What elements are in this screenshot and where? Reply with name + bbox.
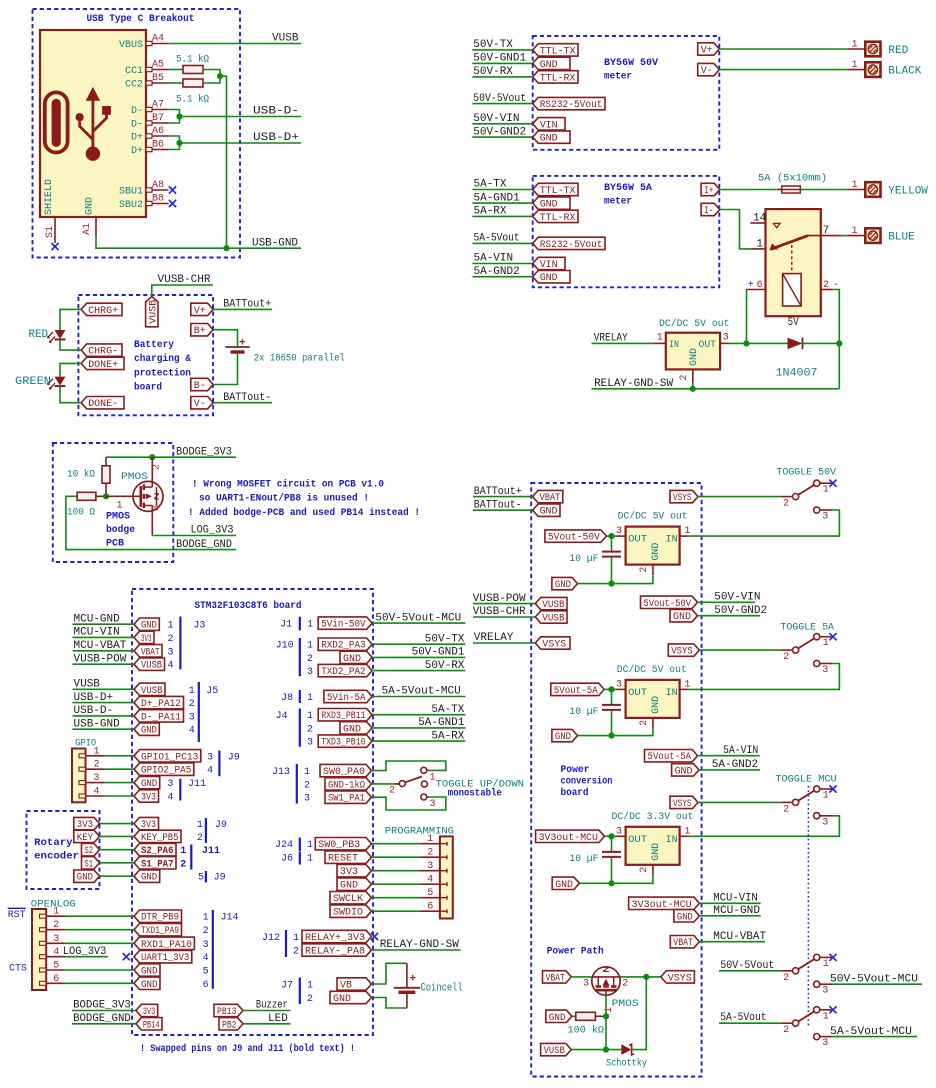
wire RELAY-GND-SW: [592, 388, 840, 390]
svg-text:LED: LED: [268, 1013, 288, 1025]
wire relay pin2 down to gnd rail: [832, 290, 839, 389]
svg-text:RED: RED: [888, 45, 908, 57]
svg-text:TXD1_PA9: TXD1_PA9: [141, 926, 179, 937]
sheet pin VIN / label 50V-VIN: [472, 123, 532, 125]
sheet pin GND out2 / label 5A-GND2: [672, 764, 699, 776]
label VUSB-POW / sheet pin VUSB: [73, 663, 135, 665]
sheet pin VUSB top: [146, 296, 158, 326]
pin A6 D+: [146, 134, 169, 138]
svg-text:50V-5Vout: 50V-5Vout: [720, 960, 774, 972]
svg-text:VRELAY: VRELAY: [594, 332, 628, 344]
sheet pin CHRG-: [81, 344, 122, 356]
svg-text:GND: GND: [555, 732, 571, 743]
svg-text:VBAT: VBAT: [673, 938, 693, 949]
svg-text:3: 3: [152, 505, 163, 511]
svg-text:5Vout-50V: 5Vout-50V: [644, 599, 692, 610]
svg-text:PB13: PB13: [217, 1007, 237, 1018]
svg-text:S1: S1: [45, 226, 56, 238]
svg-text:50V-VIN: 50V-VIN: [714, 592, 760, 604]
svg-text:S1_PA7: S1_PA7: [141, 859, 174, 870]
svg-text:6: 6: [203, 980, 209, 991]
wire Q2 gate down: [605, 990, 607, 997]
svg-text:GPIO2_PA5: GPIO2_PA5: [141, 766, 191, 777]
sheet pin RELAY-_PA8 / label RELAY-GND-SW: [302, 944, 372, 956]
svg-text:4: 4: [427, 875, 433, 886]
sheet pin GND / label 5A-GND1: [472, 202, 532, 204]
svg-text:VSYS: VSYS: [668, 973, 692, 984]
junction cap1 top: [608, 533, 614, 539]
wire gnd rail U4: [578, 728, 653, 735]
svg-text:5A-GND1: 5A-GND1: [474, 192, 521, 204]
svg-text:CTS: CTS: [9, 964, 27, 975]
svg-text:GND: GND: [651, 696, 662, 714]
pin 3 U2: [720, 342, 729, 344]
sheet pin 3V3out-MCU out / label MCU-VIN: [629, 897, 700, 909]
sheet pin VBAT powerpath: [543, 971, 572, 983]
svg-text:5.1 kΩ: 5.1 kΩ: [176, 54, 209, 66]
svg-text:SWDIO: SWDIO: [333, 908, 363, 919]
svg-text:B+: B+: [194, 326, 206, 337]
svg-text:2: 2: [203, 926, 209, 937]
junction BODGE_3V3 to PMOS source: [149, 454, 155, 460]
svg-text:B5: B5: [152, 73, 164, 84]
svg-text:BATTout+: BATTout+: [223, 299, 271, 311]
svg-text:GND: GND: [651, 543, 662, 561]
svg-text:USB-D+: USB-D+: [253, 132, 299, 144]
svg-text:PMOS: PMOS: [612, 999, 639, 1010]
label VUSB-POW / sheet pin VUSB: [473, 603, 535, 605]
pin B5 CC2: [146, 81, 169, 85]
svg-text:USB-D-: USB-D-: [253, 106, 299, 118]
svg-text:PMOS: PMOS: [121, 472, 148, 483]
svg-text:1: 1: [189, 686, 195, 697]
sheet box BY56W 5A meter: [533, 176, 720, 287]
svg-text:3: 3: [822, 665, 828, 676]
svg-text:Battery: Battery: [134, 340, 174, 351]
svg-text:TXD3_PB10: TXD3_PB10: [321, 738, 365, 749]
svg-text:1: 1: [197, 820, 203, 831]
svg-text:5A-GND2: 5A-GND2: [712, 759, 758, 771]
svg-text:D-: D-: [131, 106, 143, 117]
svg-text:2: 2: [307, 724, 313, 735]
svg-text:SW0_PB3: SW0_PB3: [318, 840, 360, 851]
svg-text:1: 1: [852, 40, 858, 51]
sheet pin TTL-TX / label 50V-TX: [472, 49, 532, 51]
relay pin 1: [752, 248, 766, 250]
svg-text:1: 1: [852, 180, 858, 191]
sheet pin VSYS powerpath: [661, 971, 695, 983]
sheet pin GND / label 5A-GND1: [340, 722, 372, 734]
wire toggle50V to U3 IN: [688, 510, 840, 536]
svg-text:2: 2: [783, 804, 789, 815]
pin 3 OPENLOG: [40, 941, 47, 945]
wire toggle5A to U4 IN: [688, 664, 840, 690]
wire CHRG+ to LED RED: [60, 309, 81, 330]
wire diode to VSYS node: [632, 977, 647, 1050]
wire B+ to battery: [213, 330, 237, 346]
svg-text:A1: A1: [82, 223, 93, 235]
svg-text:MCU-GND: MCU-GND: [713, 905, 760, 917]
svg-text:3: 3: [168, 647, 174, 658]
LED D2 GREEN: [48, 377, 66, 389]
battery BT1 2x18650: [225, 347, 249, 352]
wire GND-1k to toggle pole: [372, 783, 399, 785]
wire 5Vout-5A to U4 OUT: [604, 688, 616, 690]
label USB-D+ / sheet pin D+_PA12: [73, 702, 135, 704]
svg-text:5A-RX: 5A-RX: [431, 730, 464, 742]
svg-text:1: 1: [823, 1011, 829, 1022]
svg-text:VUSB: VUSB: [74, 679, 101, 691]
svg-text:GND: GND: [540, 200, 558, 211]
wire VBAT to Q2: [571, 976, 592, 978]
svg-text:Power Path: Power Path: [547, 945, 604, 957]
svg-text:2: 2: [679, 374, 690, 380]
label BATTout- / sheet pin GND: [473, 509, 533, 511]
junction VUSB node: [603, 1047, 609, 1053]
svg-text:10 µF: 10 µF: [569, 707, 598, 718]
svg-text:J8: J8: [281, 693, 293, 704]
svg-text:2x 18650 parallel: 2x 18650 parallel: [254, 353, 345, 365]
junction D-: [176, 113, 182, 119]
svg-text:4: 4: [207, 766, 213, 777]
capacitor C3 10uF: [611, 836, 613, 852]
sheet pin VSYS toggle50V / wire: [670, 490, 698, 502]
svg-text:2: 2: [152, 464, 163, 470]
svg-text:D+: D+: [131, 146, 143, 157]
svg-text:protection: protection: [134, 368, 191, 380]
svg-text:D-_PA11: D-_PA11: [141, 712, 181, 723]
svg-text:J7: J7: [281, 981, 293, 992]
svg-text:SWCLK: SWCLK: [333, 894, 363, 905]
svg-text:LOG_3V3: LOG_3V3: [191, 525, 234, 537]
svg-text:10 µF: 10 µF: [569, 554, 598, 565]
svg-text:2: 2: [307, 994, 313, 1005]
svg-text:VUSB: VUSB: [141, 686, 163, 697]
svg-text:S2: S2: [85, 846, 94, 857]
svg-text:SW0_PA0: SW0_PA0: [323, 767, 365, 778]
LED D1 RED: [48, 330, 66, 342]
svg-text:VUSB: VUSB: [542, 614, 564, 625]
sheet pin GND out3 / label MCU-GND: [674, 910, 700, 922]
pin 3 PMOS drain: [151, 506, 153, 536]
svg-text:3: 3: [616, 826, 622, 837]
svg-text:1: 1: [304, 767, 310, 778]
pin 6 OPENLOG: [40, 981, 47, 985]
relay pin 2: [821, 289, 833, 291]
svg-text:OUT: OUT: [628, 688, 647, 699]
wire LOG_3V3: [152, 535, 236, 537]
svg-text:GND: GND: [141, 873, 157, 884]
svg-text:so UART1-ENout/PB8 is unused !: so UART1-ENout/PB8 is unused !: [199, 493, 369, 505]
connector designator J9: [218, 751, 220, 777]
fuse F1 5A 5x10mm: [778, 186, 804, 193]
svg-text:50V-TX: 50V-TX: [425, 633, 465, 645]
svg-text:1: 1: [307, 693, 313, 704]
capacitor C1 10uF: [611, 536, 613, 552]
svg-text:RELAY-GND-SW: RELAY-GND-SW: [380, 939, 460, 951]
svg-text:J9: J9: [215, 820, 227, 831]
svg-text:1: 1: [756, 238, 763, 250]
pin S1 SHIELD: [54, 217, 56, 243]
transistor Q2 PMOS power path: [592, 967, 620, 995]
wire SW6 to label 5A-5Vout-MCU: [832, 1036, 917, 1038]
wire V+ to RED terminal: [719, 48, 847, 50]
sheet pin PB13 / label Buzzer: [214, 1004, 243, 1016]
connector designator J11 bold: [190, 845, 192, 870]
svg-text:USB-GND: USB-GND: [74, 718, 121, 730]
svg-text:UART1_3V3: UART1_3V3: [141, 953, 189, 964]
wire D- pair: [169, 110, 180, 124]
connector designator J3: [179, 617, 181, 670]
svg-text:GND: GND: [540, 134, 558, 145]
svg-text:VUSB-POW: VUSB-POW: [473, 593, 526, 605]
svg-text:USB-D-: USB-D-: [74, 705, 114, 717]
connector J? USB-C body: [40, 30, 146, 217]
svg-text:BATTout+: BATTout+: [474, 486, 522, 498]
relay coil link dashed: [791, 245, 793, 274]
svg-text:4: 4: [94, 787, 100, 798]
sheet box PMOS bodge PCB: [53, 443, 174, 562]
svg-text:2: 2: [197, 833, 203, 844]
svg-text:VUSB-POW: VUSB-POW: [74, 653, 127, 665]
svg-text:KEY_PB5: KEY_PB5: [141, 833, 179, 844]
svg-text:3: 3: [94, 773, 100, 784]
svg-text:50V-GND1: 50V-GND1: [412, 647, 465, 659]
svg-text:6: 6: [53, 974, 59, 985]
svg-text:2: 2: [622, 979, 628, 990]
svg-text:1: 1: [307, 620, 313, 631]
wire VUSB: [169, 43, 302, 45]
svg-text:5A-GND1: 5A-GND1: [418, 717, 465, 729]
svg-text:MCU-VBAT: MCU-VBAT: [74, 640, 127, 652]
sheet box Battery charging and protection board: [78, 295, 213, 415]
sheet pin VB: [337, 978, 372, 990]
sheet pin GND powerpath / resistor R5 100k: [546, 1010, 572, 1022]
wire fuse to YELLOW terminal: [800, 189, 847, 191]
sheet pin V+: [698, 43, 720, 55]
wire 5Vout-50V to U3 OUT: [606, 535, 616, 537]
svg-text:SHIELD: SHIELD: [44, 179, 55, 215]
svg-text:GND: GND: [85, 197, 96, 215]
svg-text:10 µF: 10 µF: [569, 854, 598, 865]
pin 1 U2: [653, 342, 666, 344]
svg-text:1: 1: [293, 933, 299, 944]
svg-text:VUSB-CHR: VUSB-CHR: [158, 274, 211, 286]
battery BT2 coincell: [406, 963, 408, 987]
svg-text:TTL-TX: TTL-TX: [540, 46, 576, 57]
pin B8 SBU2: [146, 201, 169, 205]
svg-text:meter: meter: [604, 72, 632, 83]
svg-text:1: 1: [94, 746, 100, 757]
junction D+: [176, 140, 182, 146]
wire coincell - to GND: [372, 998, 407, 1009]
wire SW1_PA1 to toggle contact 3: [372, 797, 446, 810]
pin 2 PROGRAMMING / sheet pin RESET: [440, 855, 447, 859]
wire V+ to BATTout+: [213, 308, 272, 310]
sheet box Power conversion board: [531, 483, 701, 1077]
wire VUSB-CHR: [152, 285, 213, 296]
svg-text:DTR_PB9: DTR_PB9: [141, 913, 179, 924]
svg-text:GND: GND: [675, 766, 693, 777]
sheet pin GND / label 50V-GND2: [472, 136, 532, 138]
wire CC1 to R1: [169, 69, 184, 71]
svg-text:5A (5x10mm): 5A (5x10mm): [758, 173, 827, 185]
svg-text:DC/DC 3.3V out: DC/DC 3.3V out: [612, 811, 694, 823]
switch SW3 TOGGLE 5A: [781, 634, 833, 667]
svg-text:1: 1: [657, 333, 663, 344]
sheet box STM32F103C8T6 board: [132, 589, 373, 1035]
svg-text:2: 2: [53, 920, 59, 931]
svg-text:Schottky: Schottky: [606, 1057, 647, 1069]
sheet pin 5Vout-5A out / label 5A-VIN: [645, 750, 698, 762]
svg-text:GND: GND: [555, 880, 573, 891]
svg-text:2: 2: [783, 652, 789, 663]
sheet pin PB2 / label LED: [219, 1018, 243, 1030]
svg-text:GND: GND: [77, 873, 93, 884]
svg-text:MCU-GND: MCU-GND: [74, 613, 121, 625]
svg-text:3: 3: [616, 526, 622, 537]
svg-text:2: 2: [783, 973, 789, 984]
svg-text:5Vout-5A: 5Vout-5A: [648, 752, 692, 763]
label VUSB-CHR / sheet pin VUSB 2: [473, 616, 535, 618]
pin 2 GPIO / sheet pin GPIO2_PA5: [79, 767, 86, 771]
svg-text:2: 2: [639, 720, 650, 726]
relay coil: [783, 274, 802, 306]
svg-text:board: board: [561, 787, 589, 799]
svg-text:5A-5Vout-MCU: 5A-5Vout-MCU: [382, 686, 461, 698]
wire VUSB to diode: [571, 1049, 621, 1051]
connector designator J8: [299, 690, 301, 703]
pin A5 CC1: [146, 67, 169, 71]
svg-text:J4: J4: [276, 711, 288, 722]
svg-text:50V-RX: 50V-RX: [473, 66, 513, 78]
svg-text:TOGGLE 5A: TOGGLE 5A: [780, 623, 834, 634]
svg-text:1: 1: [53, 907, 59, 918]
svg-text:VRELAY: VRELAY: [474, 632, 514, 644]
svg-text:1: 1: [427, 834, 433, 845]
svg-text:J14: J14: [221, 913, 239, 924]
sheet pin S2 encoder / sheet pin S2_PA6: [82, 844, 100, 856]
svg-text:SBU1: SBU1: [119, 187, 143, 198]
svg-text:VBAT: VBAT: [546, 973, 565, 984]
screw terminal RED: [865, 42, 880, 57]
pin B6 D+: [146, 147, 169, 151]
svg-text:J9: J9: [214, 873, 226, 884]
svg-text:5: 5: [53, 961, 59, 972]
switch SW1 toggle up/down: [395, 767, 429, 800]
svg-text:Buzzer: Buzzer: [256, 1000, 288, 1012]
sheet box USB Type C Breakout: [33, 9, 241, 258]
svg-text:2: 2: [94, 760, 100, 771]
svg-text:GND: GND: [340, 881, 358, 892]
label 5A-5Vout / switch SW6: [719, 1022, 781, 1024]
svg-text:50V-5Vout-MCU: 50V-5Vout-MCU: [830, 973, 918, 985]
pin A8 SBU1: [146, 188, 169, 192]
svg-text:MCU-VBAT: MCU-VBAT: [713, 931, 766, 943]
junction CC join: [217, 73, 223, 79]
svg-text:2: 2: [427, 848, 433, 859]
svg-text:5A-5Vout: 5A-5Vout: [474, 233, 520, 245]
svg-text:VUSB: VUSB: [148, 300, 159, 324]
svg-text:5.1 kΩ: 5.1 kΩ: [176, 94, 209, 106]
svg-text:1: 1: [307, 641, 313, 652]
svg-text:1: 1: [168, 621, 174, 632]
svg-text:BODGE_GND: BODGE_GND: [73, 1013, 131, 1025]
svg-text:RXD1_PA10: RXD1_PA10: [141, 940, 192, 951]
svg-text:10 kΩ: 10 kΩ: [67, 469, 95, 481]
junction cap3 top: [608, 833, 614, 839]
svg-text:+: +: [410, 974, 417, 986]
wire GND to USB-GND: [96, 236, 301, 248]
svg-text:board: board: [134, 382, 162, 394]
svg-text:GND-1kΩ: GND-1kΩ: [328, 779, 365, 791]
svg-text:5A-VIN: 5A-VIN: [474, 253, 514, 265]
sheet pin TTL-RX / label 5A-RX: [472, 215, 532, 217]
svg-text:DC/DC 5V out: DC/DC 5V out: [618, 511, 688, 523]
svg-text:Coincell: Coincell: [421, 983, 463, 995]
sheet pin B-: [191, 378, 213, 390]
svg-text:5: 5: [203, 967, 209, 978]
sheet pin DONE+: [81, 357, 124, 369]
sheet pin I+: [701, 183, 720, 195]
pin 3 PROGRAMMING / sheet pin 3V3: [440, 869, 447, 873]
sheet pin GND cap3: [552, 877, 579, 889]
svg-text:4: 4: [168, 661, 174, 672]
svg-text:3: 3: [304, 794, 310, 805]
svg-text:MCU-VIN: MCU-VIN: [713, 892, 758, 904]
svg-text:5Vin-5A: 5Vin-5A: [327, 692, 366, 704]
resistor R3 10k vertical: [105, 457, 107, 466]
sheet pin V-: [698, 63, 720, 75]
svg-text:2: 2: [307, 654, 313, 665]
svg-text:1: 1: [117, 501, 123, 512]
pin 2 PMOS source: [151, 457, 153, 487]
svg-text:CC1: CC1: [125, 66, 143, 77]
svg-text:GND: GND: [343, 724, 361, 735]
svg-text:V+: V+: [194, 306, 206, 317]
svg-text:5A-VIN: 5A-VIN: [723, 745, 758, 757]
svg-text:VBAT: VBAT: [141, 647, 160, 658]
svg-text:50V-5Vout: 50V-5Vout: [473, 93, 526, 105]
svg-text:3: 3: [616, 680, 622, 691]
svg-text:A8: A8: [152, 180, 164, 191]
wire I- to relay pin 1: [720, 210, 752, 249]
svg-text:VSYS: VSYS: [671, 647, 693, 658]
sheet pin VSYS toggleMCU / wire: [670, 796, 698, 808]
wire pin7 to BLUE terminal: [842, 235, 848, 237]
connector designator J9 pin5: [205, 871, 207, 883]
svg-text:meter: meter: [604, 197, 632, 208]
svg-text:VIN: VIN: [540, 260, 558, 271]
svg-text:5A-TX: 5A-TX: [474, 179, 507, 191]
svg-text:PMOS: PMOS: [106, 512, 130, 523]
svg-text:USB-GND: USB-GND: [252, 237, 298, 249]
svg-text:3: 3: [822, 817, 828, 828]
svg-text:KEY: KEY: [77, 833, 93, 844]
svg-text:STM32F103C8T6 board: STM32F103C8T6 board: [195, 600, 302, 612]
svg-text:USB-D+: USB-D+: [74, 692, 114, 704]
svg-text:3: 3: [307, 738, 313, 749]
svg-text:J6: J6: [281, 854, 293, 865]
svg-text:2: 2: [823, 280, 829, 291]
svg-text:IN: IN: [666, 535, 678, 546]
sheet pin GND J7: [330, 991, 372, 1003]
svg-text:1: 1: [852, 60, 858, 71]
svg-text:TTL-RX: TTL-RX: [540, 213, 576, 224]
svg-text:50V-5Vout-MCU: 50V-5Vout-MCU: [375, 612, 461, 624]
wire battery to B-: [213, 353, 237, 385]
svg-text:J5: J5: [206, 686, 218, 697]
